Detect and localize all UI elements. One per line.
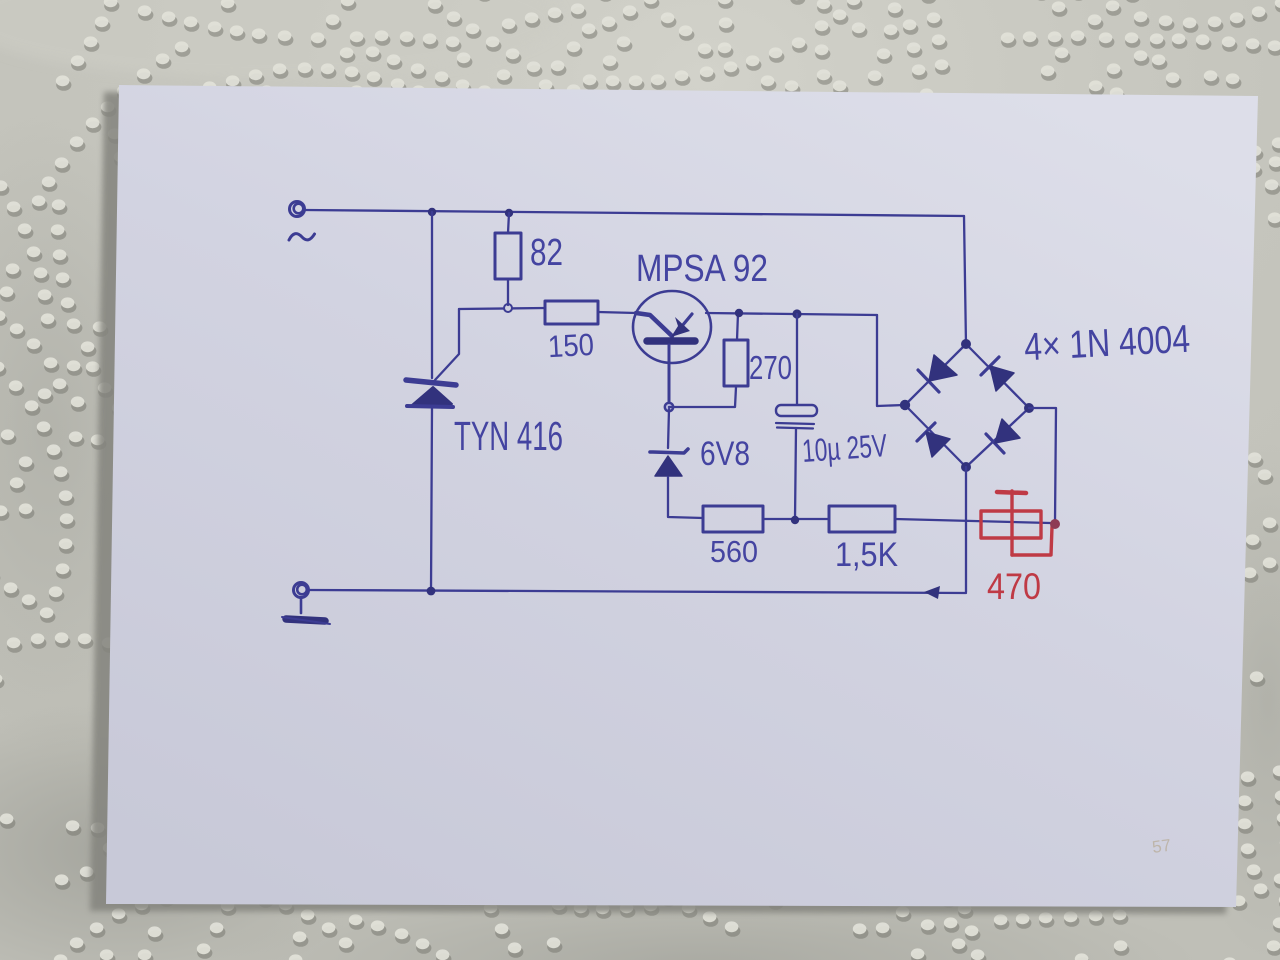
diode D2 bar: [981, 357, 999, 375]
wire: 1.5K to pot node: [895, 519, 1050, 523]
svg-text:4× 1N 4004: 4× 1N 4004: [1023, 318, 1191, 370]
wire: corner down to bridge left node: [877, 315, 904, 406]
AC input terminal (top left): [290, 202, 305, 217]
rail arrowhead: [924, 586, 940, 599]
wire: emitter node to R270 bottom: [669, 387, 736, 407]
pot 470 bottom hook: [1012, 527, 1052, 555]
thyristor TYN416 cathode bar: [406, 380, 456, 385]
bridge arm bottom-right: [966, 408, 1029, 467]
bridge node bottom: [961, 462, 971, 472]
junction: capacitor / bottom wire: [791, 516, 799, 524]
resistor 1,5K body: [829, 506, 895, 532]
ground lead: [300, 598, 303, 613]
resistor 82 leads: [508, 213, 509, 305]
wire: 560 to 1.5K: [763, 518, 829, 520]
diode D3 triangle: [926, 432, 950, 457]
thyristor TYN416 base line: [407, 406, 453, 407]
wire: zener top lead: [668, 409, 669, 448]
svg-text:1,5K: 1,5K: [835, 536, 898, 574]
AC tilde symbol: [289, 234, 315, 240]
resistor 150 body: [545, 301, 598, 324]
zener bottom lead: [668, 477, 703, 518]
wire: bridge bottom to rail: [965, 467, 967, 592]
bridge node top: [961, 339, 971, 349]
wire: transistor right to corner: [706, 313, 877, 315]
diode D1 bar: [918, 370, 939, 392]
svg-text:10µ 25V: 10µ 25V: [801, 427, 889, 469]
red trimmer 470: [981, 491, 1052, 555]
capacitor top plate: [776, 405, 817, 416]
capacitor bottom plate: [776, 423, 814, 429]
svg-text:560: 560: [710, 534, 758, 569]
zener 6V8 cathode bar: [650, 449, 688, 453]
thyristor gate lead: [435, 309, 459, 380]
wire: thyristor branch vertical: [431, 212, 433, 378]
transistor collector stroke with arrow: [682, 314, 692, 326]
bridge node right: [1024, 403, 1034, 413]
junction: bottom rail / thyristor: [427, 587, 436, 596]
bridge node left: [900, 400, 910, 410]
bridge arm top-left: [905, 344, 966, 405]
transistor emitter lead: [668, 345, 671, 405]
svg-text:57: 57: [1151, 836, 1172, 857]
wire: bridge right node out: [1029, 408, 1056, 522]
svg-text:470: 470: [987, 566, 1041, 607]
resistor 82 body: [495, 233, 521, 279]
wire: 150 to transistor: [598, 312, 636, 313]
diode D4 triangle: [995, 419, 1020, 443]
junction: rail / capacitor: [792, 309, 801, 318]
transistor base-in stroke: [636, 313, 672, 336]
resistor 270 top lead: [737, 313, 738, 340]
transistor MPSA92 circle: [633, 291, 711, 363]
junction ring under R82: [504, 304, 512, 312]
junction: rail / R270: [735, 309, 743, 317]
junction: pot node (red-blue dot): [1050, 519, 1060, 529]
capacitor bottom lead: [795, 428, 796, 519]
diode D2 triangle: [990, 366, 1014, 391]
pot 470 wiper top bar: [997, 492, 1026, 493]
capacitor top lead: [796, 314, 798, 404]
junction: top rail / thyristor branch: [428, 208, 436, 216]
thyristor TYN416 anode triangle: [412, 387, 452, 405]
wire: thyristor to bottom rail: [431, 407, 432, 591]
pot 470 wiper: [1010, 491, 1013, 555]
svg-text:TYN 416: TYN 416: [454, 413, 563, 459]
transistor base bar: [647, 337, 695, 345]
svg-text:6V8: 6V8: [700, 435, 750, 473]
bridge arm top-right: [966, 344, 1029, 408]
wire: right drop to bridge top: [964, 216, 966, 345]
svg-text:MPSA 92: MPSA 92: [636, 248, 768, 290]
bridge arm bottom-left: [905, 405, 966, 467]
wire: gate node horizontal: [459, 308, 545, 309]
svg-text:150: 150: [547, 327, 595, 364]
bottom rail: [309, 590, 966, 593]
paper sheet shadow: [90, 92, 1246, 914]
zener 6V8 triangle: [655, 456, 682, 476]
wire: top rail: [305, 210, 964, 216]
svg-text:82: 82: [530, 232, 563, 274]
diode D3 bar: [917, 423, 935, 441]
resistor 560 body: [703, 506, 763, 532]
diode D4 bar: [986, 434, 1004, 453]
resistor 270 body: [724, 340, 748, 386]
diode D1 triangle: [929, 355, 957, 381]
junction: emitter node ring: [665, 403, 673, 411]
output terminal (bottom left): [294, 583, 309, 598]
pot 470 body: [981, 511, 1041, 538]
junction: top rail / R82: [505, 209, 513, 217]
paper sheet: [106, 85, 1258, 907]
ground bar: [286, 619, 325, 621]
svg-text:270: 270: [749, 349, 792, 386]
